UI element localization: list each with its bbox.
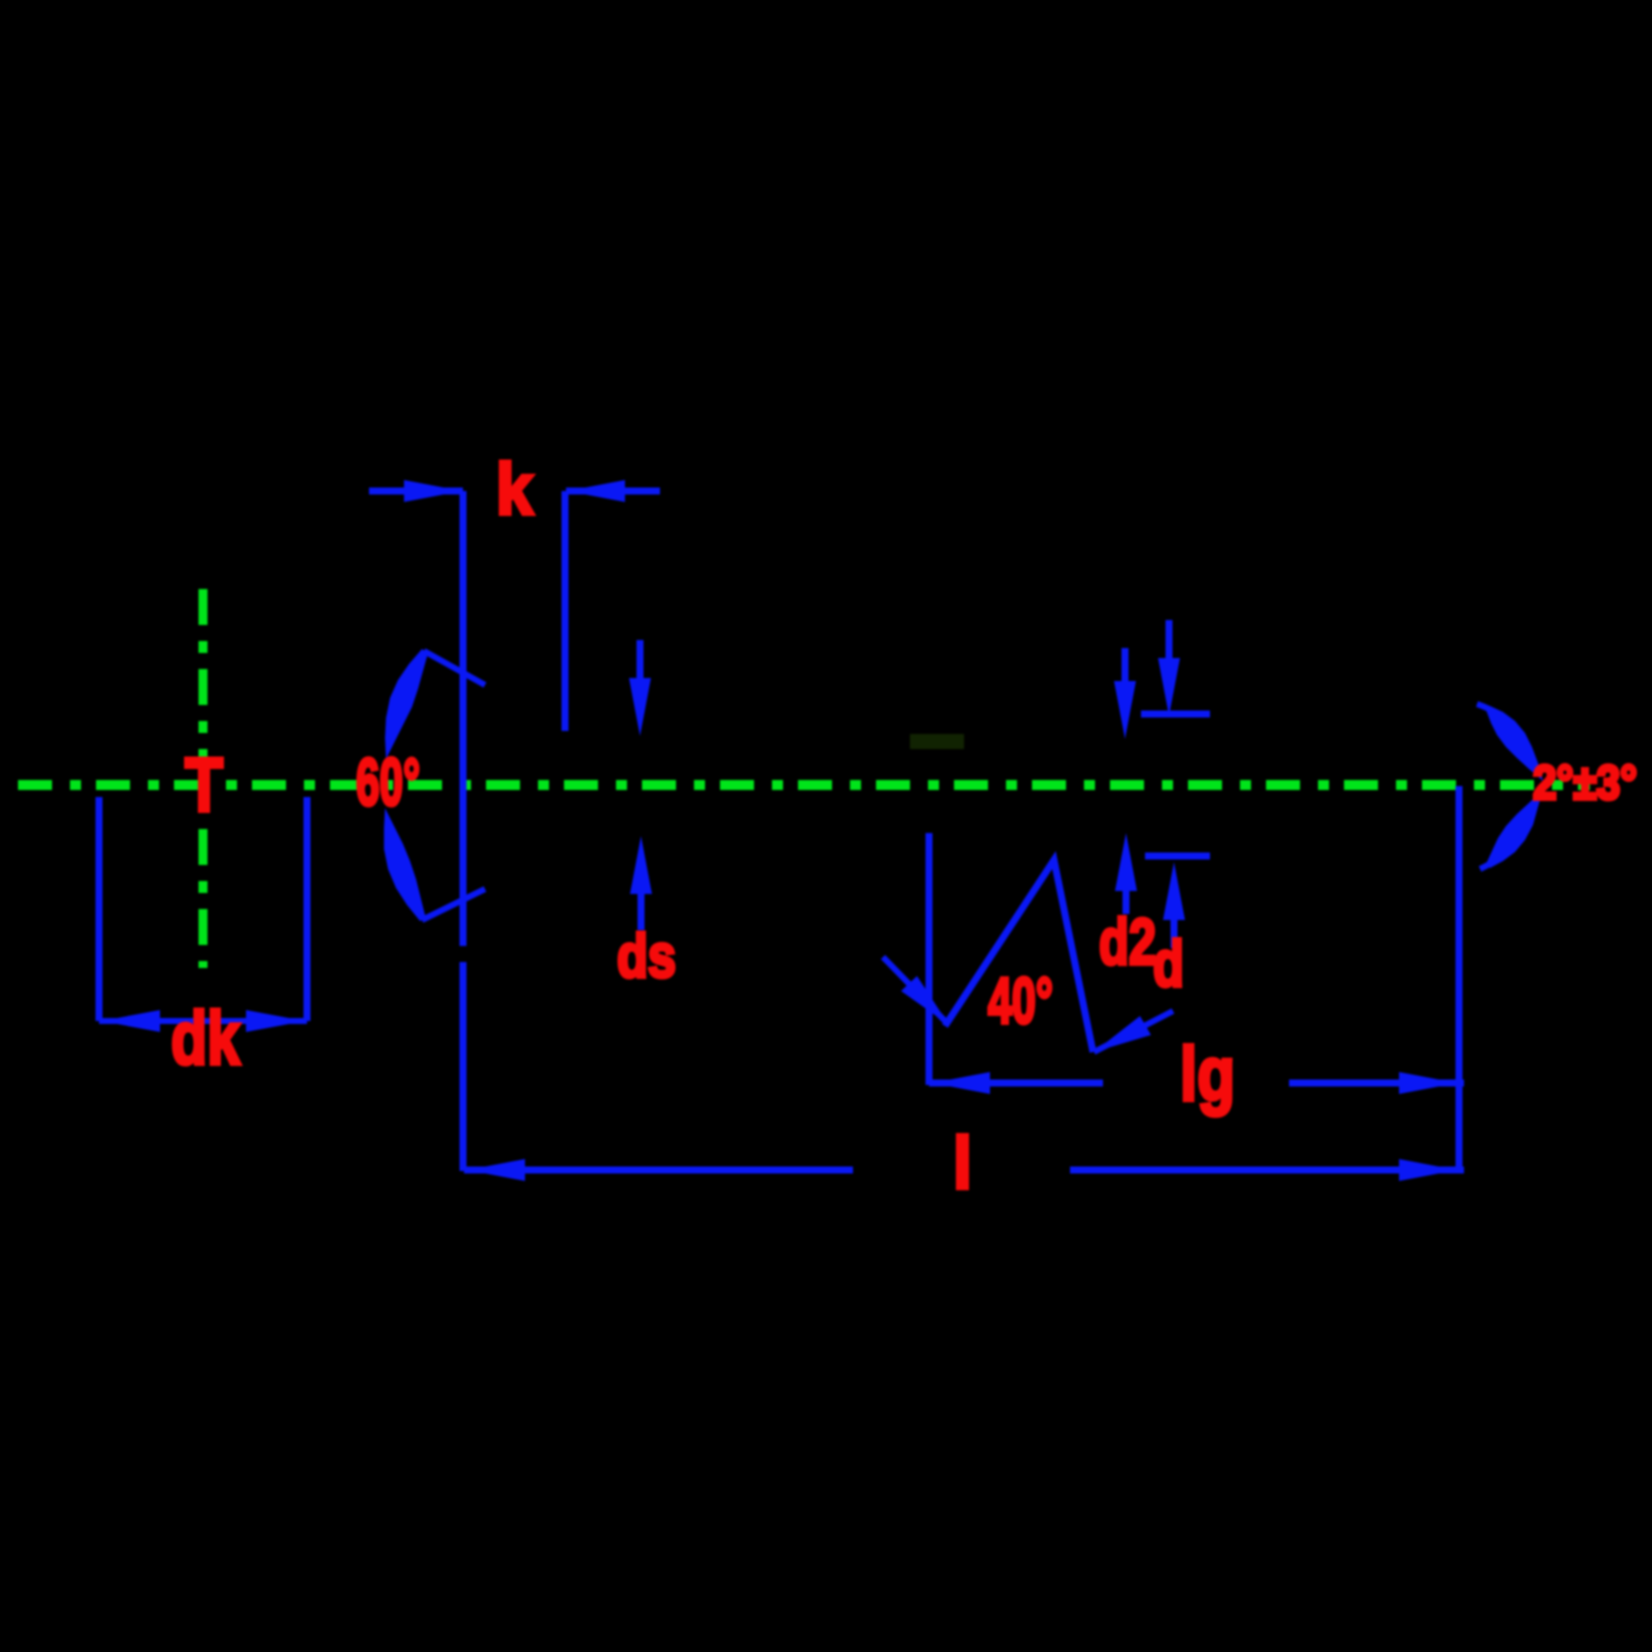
extension line right (lg and l) <box>1456 786 1463 1172</box>
countersink cone edge top <box>424 651 485 685</box>
svg-text:lg: lg <box>1180 1032 1235 1117</box>
ds arrowhead top (points down) <box>629 678 651 736</box>
lg extension line left <box>926 833 933 1085</box>
dimension line lg left part <box>929 1080 1103 1087</box>
d2 arrowhead bottom (points up) <box>1115 833 1137 891</box>
dimension line l right part <box>1070 1167 1464 1174</box>
artifact smudge on centerline <box>910 734 964 749</box>
d2 dimension bottom shaft <box>1123 885 1130 914</box>
40 degree leader line left <box>883 957 947 1023</box>
dk arrowhead left <box>101 1010 160 1032</box>
lg arrowhead right (points right) <box>1399 1072 1457 1094</box>
d dimension bottom shaft <box>1171 915 1178 948</box>
svg-text:dk: dk <box>171 996 240 1080</box>
svg-text:40°: 40° <box>988 964 1053 1037</box>
extension line left long (k and l) <box>460 491 467 946</box>
d2 dimension top shaft <box>1122 648 1129 690</box>
d dimension top shaft <box>1166 620 1173 660</box>
lg arrowhead left (points left) <box>932 1072 990 1094</box>
svg-text:2°±3°: 2°±3° <box>1533 757 1637 810</box>
extension line left long lower part <box>460 962 467 1171</box>
chamfer angle arrow upper tail <box>1477 704 1512 726</box>
l arrowhead right (points right) <box>1399 1159 1457 1181</box>
svg-text:l: l <box>953 1123 972 1204</box>
chamfer angle arrow upper head <box>1486 706 1543 781</box>
60 degree arc arrow top <box>385 649 428 759</box>
d arrowhead bottom (points up) <box>1163 862 1185 920</box>
dimension line k left part <box>369 488 463 495</box>
k arrowhead right (points left) <box>567 480 625 502</box>
ds arrowhead bottom (points up) <box>630 836 652 894</box>
d arrowhead top (points down) <box>1158 658 1180 716</box>
countersink cone edge bottom <box>422 889 485 920</box>
thread runout V <box>945 860 1093 1052</box>
dimension line l left part <box>464 1167 853 1174</box>
ds dimension bottom shaft <box>638 890 645 930</box>
d2 arrowhead top (points down) <box>1114 681 1136 739</box>
l arrowhead left (points left) <box>467 1159 525 1181</box>
svg-text:T: T <box>185 743 223 828</box>
chamfer angle arrow lower tail <box>1480 845 1512 869</box>
vertical centerline (head axis) <box>199 589 208 968</box>
60 degree arc arrow bottom <box>384 808 426 921</box>
dimension line k right part <box>566 488 660 495</box>
svg-text:d: d <box>1153 927 1184 1000</box>
dimension dk extension line left <box>96 797 103 1021</box>
dimension line dk <box>99 1018 307 1024</box>
40 degree leader arrowhead left <box>901 976 949 1025</box>
dimension dk extension line right <box>304 797 311 1021</box>
extension line k right (above head) <box>562 491 569 731</box>
svg-text:60°: 60° <box>356 745 420 820</box>
svg-text:ds: ds <box>617 922 676 990</box>
ds dimension top shaft <box>637 640 644 700</box>
dk arrowhead right <box>246 1010 305 1032</box>
svg-text:d2: d2 <box>1099 905 1156 978</box>
d dimension top tick <box>1141 711 1210 718</box>
d dimension bottom tick <box>1145 853 1210 860</box>
chamfer angle arrow lower head <box>1486 789 1543 868</box>
40 degree leader arrowhead right <box>1094 1016 1151 1052</box>
40 degree leader tail right <box>1094 1011 1173 1052</box>
dimension line lg right part <box>1289 1080 1464 1087</box>
k arrowhead left (points right) <box>404 480 462 502</box>
svg-text:k: k <box>496 450 534 530</box>
horizontal centerline <box>18 780 1590 790</box>
